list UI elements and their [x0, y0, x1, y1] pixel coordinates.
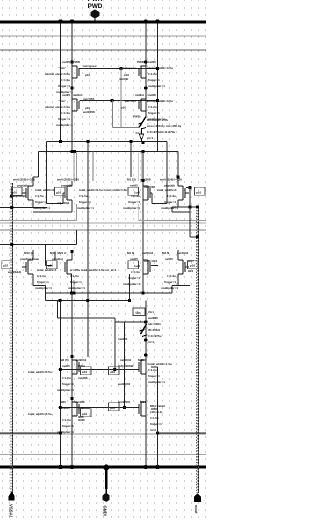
svg-text:m=1: m=1 [148, 340, 154, 344]
svg-text:multiplier=1: multiplier=1 [35, 286, 52, 290]
svg-text:"uto": "uto" [58, 66, 66, 70]
svg-text:M1 N: M1 N [127, 251, 134, 255]
svg-text:l=1.2u: l=1.2u [148, 72, 157, 76]
svg-text:944: 944 [188, 269, 193, 273]
svg-text:n10: n10 [110, 370, 116, 374]
svg-text:M1 (3): M1 (3) [127, 178, 136, 182]
svg-text:finger=1: finger=1 [148, 78, 160, 82]
svg-text:well8001: well8001 [117, 400, 131, 404]
svg-text:l=1.0u: l=1.0u [131, 270, 140, 274]
svg-text:well(358: well(358 [82, 110, 95, 114]
svg-text:well (358) l=320: well (358) l=320 [159, 178, 182, 182]
svg-text:M3hi: M3hi [78, 364, 85, 368]
svg-text:l=1.0u: l=1.0u [62, 418, 71, 422]
svg-text:well8001: well8001 [117, 382, 131, 386]
svg-text:vout: vout [194, 505, 199, 514]
svg-text:M12 G: M12 G [24, 251, 34, 255]
svg-text:M4 N: M4 N [162, 251, 169, 255]
svg-text:1u/0: 1u/0 [134, 264, 140, 268]
svg-text:l=1.5u: l=1.5u [62, 376, 71, 380]
svg-text:pnp2(a): pnp2(a) [52, 257, 63, 261]
svg-text:multiplier=1: multiplier=1 [123, 206, 140, 210]
svg-text:net(368: net(368 [140, 178, 151, 182]
svg-text:wellM0: wellM0 [147, 316, 158, 320]
svg-text:finger=1: finger=1 [35, 200, 47, 204]
svg-text:l=1.2u: l=1.2u [148, 105, 157, 109]
svg-text:l=1.0u: l=1.0u [37, 274, 46, 278]
svg-text:W=458.6: W=458.6 [148, 328, 160, 332]
svg-text:l=1.0u: l=1.0u [167, 194, 176, 198]
svg-text:wtotal_elem=1.0u: wtotal_elem=1.0u [44, 105, 70, 109]
svg-text:net0601: net0601 [78, 406, 90, 410]
svg-text:pnp(a)b: pnp(a)b [61, 184, 72, 188]
svg-text:pnp(a)b: pnp(a)b [17, 184, 28, 188]
svg-text:l=1.0u: l=1.0u [131, 194, 140, 198]
svg-text:wtotal_width=3.5u: wtotal_width=3.5u [146, 66, 173, 70]
svg-text:multiplier=1: multiplier=1 [33, 206, 50, 210]
svg-text:M4?: M4? [188, 259, 194, 263]
svg-text:R0.dstnk=157k: R0.dstnk=157k [147, 118, 168, 122]
svg-text:(b5) DRAW: (b5) DRAW [118, 364, 134, 368]
svg-text:total_width=4: total_width=4 [37, 268, 57, 272]
svg-text:finger=1: finger=1 [62, 382, 74, 386]
svg-text:net=poes: net=poes [123, 66, 137, 70]
svg-text:total_width=2: total_width=2 [35, 188, 55, 192]
svg-text:multiplier=1: multiplier=1 [68, 286, 85, 290]
svg-text:net05: net05 [62, 364, 70, 368]
svg-text:i2n: i2n [136, 311, 141, 315]
svg-text:w=4/5u total_width=1.5u tot_w=: w=4/5u total_width=1.5u tot_w=1 [69, 268, 117, 272]
svg-text:PWR: PWR [88, 0, 103, 3]
svg-text:finger=1: finger=1 [128, 200, 140, 204]
svg-text:net05: net05 [148, 60, 156, 64]
svg-text:net05: net05 [130, 257, 138, 261]
svg-text:net05: net05 [148, 93, 156, 97]
svg-text:net081: net081 [118, 337, 128, 341]
svg-text:total_width=5.5u: total_width=5.5u [28, 412, 52, 416]
svg-text:l=11.975u: l=11.975u [148, 334, 162, 338]
svg-text:GND: GND [78, 418, 86, 422]
svg-text:finger=1: finger=1 [37, 280, 49, 284]
svg-text:total_width=2: total_width=2 [157, 188, 177, 192]
svg-text:M30: M30 [60, 400, 66, 404]
svg-text:p10: p10 [85, 73, 91, 77]
svg-text:p10: p10 [196, 191, 202, 195]
svg-text:finger=1: finger=1 [128, 276, 140, 280]
svg-text:wd 100/1: wd 100/1 [56, 201, 70, 205]
svg-text:net5044: net5044 [142, 251, 154, 255]
svg-text:total_width=1.1u: total_width=1.1u [148, 362, 172, 366]
svg-text:GND!: GND! [103, 506, 108, 517]
svg-text:l=1.5u: l=1.5u [150, 416, 159, 420]
svg-text:finger=1: finger=1 [164, 200, 176, 204]
svg-text:multiplier=1: multiplier=1 [148, 84, 165, 88]
svg-text:multiplier=1: multiplier=1 [77, 206, 94, 210]
svg-text:Gw0=044: Gw0=044 [144, 259, 157, 263]
svg-text:xm=450.0y: xm=450.0y [166, 124, 182, 128]
svg-text:l=1.5u: l=1.5u [35, 194, 44, 198]
svg-text:l=1.2u: l=1.2u [148, 368, 157, 372]
svg-text:multiplier=1: multiplier=1 [161, 206, 178, 210]
svg-text:(4th=1.1): (4th=1.1) [150, 410, 162, 414]
svg-text:M04 Detail: M04 Detail [150, 404, 165, 408]
svg-text:l=1.0u: l=1.0u [61, 78, 70, 82]
svg-text:multiplier=1: multiplier=1 [56, 123, 73, 127]
svg-text:net00b: net00b [119, 77, 129, 81]
svg-text:wtotal_width=3.5u: wtotal_width=3.5u [146, 99, 173, 103]
svg-text:multiplier=1: multiplier=1 [161, 286, 178, 290]
svg-text:l=1.0u: l=1.0u [61, 111, 70, 115]
svg-text:p10: p10 [3, 264, 9, 268]
svg-text:pnp2(a) Draw: pnp2(a) Draw [20, 257, 40, 261]
svg-text:wres=450.6y: wres=450.6y [146, 124, 165, 128]
svg-text:l=1.5u: l=1.5u [79, 194, 88, 198]
svg-text:M04: M04 [140, 400, 146, 404]
svg-text:net05: net05 [165, 257, 173, 261]
svg-text:net=055: net=055 [125, 99, 137, 103]
svg-text:p10: p10 [124, 73, 130, 77]
svg-text:ln=11.970u: ln=11.970u [160, 130, 175, 134]
svg-text:total_width=3.5u total_vidth=: total_width=3.5u total_vidth=1.5u [79, 188, 127, 192]
svg-text:I'm1: I'm1 [148, 310, 154, 314]
svg-text:multiplier=1: multiplier=1 [57, 388, 74, 392]
svg-text:M35: M35 [138, 358, 144, 362]
svg-text:net186: net186 [75, 400, 85, 404]
svg-text:net0644: net0644 [120, 358, 132, 362]
svg-text:wtotal_elem=5.5u: wtotal_elem=5.5u [44, 72, 70, 76]
svg-text:net=055: net=055 [83, 97, 95, 101]
svg-text:PWD: PWD [88, 3, 103, 10]
svg-text:n10: n10 [82, 412, 88, 416]
svg-text:net0nt: net0nt [135, 93, 144, 97]
svg-text:m=1: m=1 [150, 428, 156, 432]
svg-text:multiplier=1: multiplier=1 [57, 430, 74, 434]
svg-text:g10: g10 [48, 264, 54, 268]
svg-text:l=1.0u: l=1.0u [70, 274, 79, 278]
svg-text:p10: p10 [190, 264, 196, 268]
svg-text:finger=1: finger=1 [70, 280, 82, 284]
svg-text:idc=500n: idc=500n [148, 322, 161, 326]
svg-text:l=1.0u: l=1.0u [167, 274, 176, 278]
svg-text:multiplier=1: multiplier=1 [148, 380, 165, 384]
svg-text:finger=1: finger=1 [58, 84, 70, 88]
svg-text:finger=1: finger=1 [150, 422, 162, 426]
svg-text:net1944: net1944 [177, 251, 189, 255]
svg-text:net05: net05 [62, 406, 70, 410]
svg-text:finger=1: finger=1 [164, 280, 176, 284]
svg-text:net=goes: net=goes [83, 64, 97, 68]
svg-text:M15 M21 G: M15 M21 G [50, 251, 67, 255]
svg-text:net5062: net5062 [144, 185, 156, 189]
svg-text:finger=1: finger=1 [62, 424, 74, 428]
svg-text:C1: C1 [136, 131, 140, 135]
svg-text:finger=1: finger=1 [79, 200, 91, 204]
svg-text:finger=1: finger=1 [58, 117, 70, 121]
svg-text:total_width=5.5u: total_width=5.5u [28, 370, 52, 374]
svg-text:finger=1: finger=1 [148, 374, 160, 378]
svg-text:finger=1: finger=1 [148, 111, 160, 115]
svg-text:net186: net186 [78, 376, 88, 380]
svg-text:well (358) l=320: well (358) l=320 [12, 178, 35, 182]
svg-text:multiplier=1: multiplier=1 [123, 282, 140, 286]
svg-text:net05: net05 [62, 93, 70, 97]
svg-text:p10: p10 [121, 106, 127, 110]
svg-text:g10: g10 [56, 191, 62, 195]
svg-text:VSSA!: VSSA! [9, 504, 14, 518]
svg-text:PWD: PWD [73, 60, 81, 64]
svg-text:pnp(a)b: pnp(a)b [164, 184, 175, 188]
svg-text:net0nt: net0nt [73, 93, 82, 97]
svg-text:m=1: m=1 [147, 136, 153, 140]
svg-text:net9644: net9644 [75, 358, 87, 362]
svg-text:l=11.970u: l=11.970u [147, 130, 161, 134]
svg-text:M3 (5): M3 (5) [60, 358, 69, 362]
svg-text:p10: p10 [12, 191, 18, 195]
svg-text:PWD: PWD [133, 115, 141, 119]
svg-text:well(3&4): well(3&4) [7, 270, 21, 274]
svg-text:n10: n10 [82, 370, 88, 374]
svg-text:net05: net05 [62, 60, 70, 64]
svg-text:PWD: PWD [137, 60, 145, 64]
svg-text:well (358) l=320: well (358) l=320 [56, 178, 79, 182]
svg-text:net05: net05 [130, 184, 138, 188]
svg-text:"uto": "uto" [58, 99, 66, 103]
svg-text:p10: p10 [110, 406, 116, 410]
